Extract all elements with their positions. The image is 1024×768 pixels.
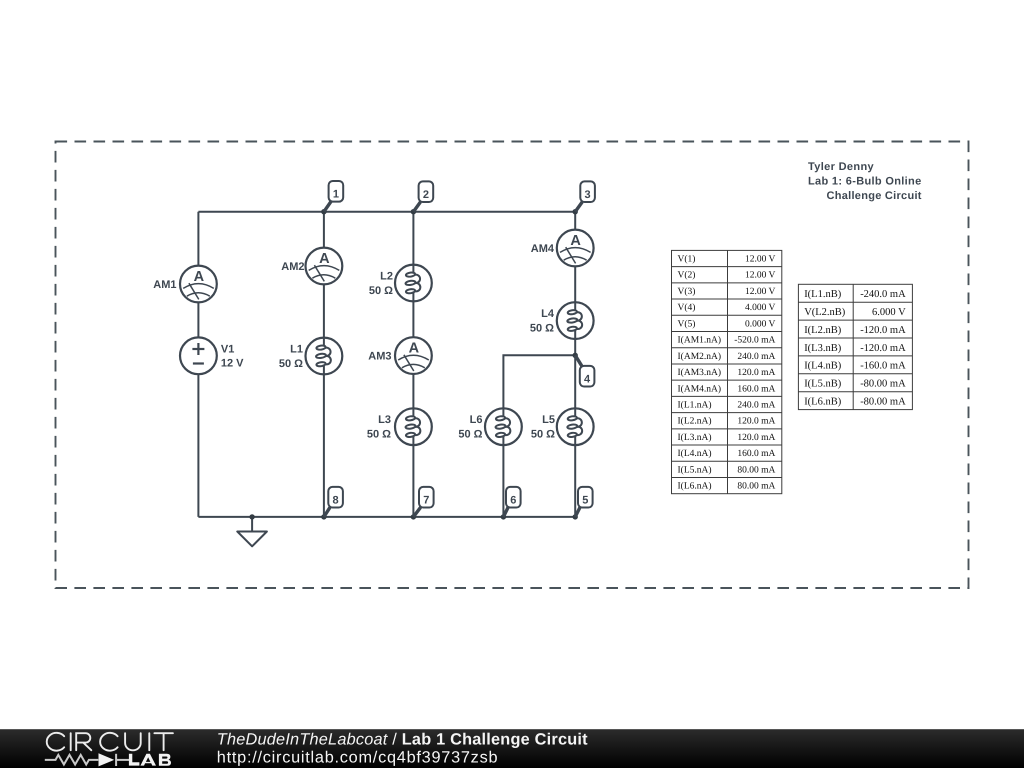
svg-text:I(AM4.nA): I(AM4.nA) [678, 384, 722, 394]
node 5 flag [575, 487, 592, 517]
svg-text:I(L5.nB): I(L5.nB) [804, 379, 842, 390]
junction node 7 dot [411, 514, 416, 519]
ground [237, 517, 267, 546]
lamp L5 50 Ohm [557, 408, 594, 445]
svg-text:Tyler Denny: Tyler Denny [808, 161, 875, 173]
ammeter AM4 [557, 230, 594, 267]
svg-text:160.0 mA: 160.0 mA [737, 384, 775, 394]
wire left branch V1/AM1 [197, 212, 199, 517]
svg-text:50 Ω: 50 Ω [458, 429, 482, 441]
svg-text:I(AM3.nA): I(AM3.nA) [678, 368, 722, 378]
svg-text:80.00 mA: 80.00 mA [737, 482, 775, 492]
svg-text:I(AM2.nA): I(AM2.nA) [678, 352, 722, 362]
ammeter AM3 [395, 337, 432, 374]
svg-text:7: 7 [423, 494, 429, 506]
junction node 3 dot [573, 209, 578, 214]
voltage source V1 [180, 337, 217, 374]
svg-text:I(L1.nA): I(L1.nA) [678, 400, 712, 410]
svg-text:120.0 mA: 120.0 mA [737, 417, 775, 427]
svg-text:I(L5.nA): I(L5.nA) [678, 465, 712, 475]
svg-text:TheDudeInTheLabcoat / Lab 1 Ch: TheDudeInTheLabcoat / Lab 1 Challenge Ci… [217, 731, 588, 749]
ammeter AM1 [180, 266, 217, 303]
svg-text:-80.00 mA: -80.00 mA [860, 396, 906, 407]
svg-text:I(L6.nA): I(L6.nA) [678, 482, 712, 492]
svg-text:-520.0 mA: -520.0 mA [734, 336, 775, 346]
junction node 6 dot [501, 514, 506, 519]
wire branch AM4/L4/L5 [574, 212, 576, 517]
svg-text:2: 2 [423, 189, 429, 201]
footer bar [0, 729, 1024, 768]
svg-text:6: 6 [510, 494, 516, 506]
svg-text:L5: L5 [542, 414, 555, 426]
svg-text:V(2): V(2) [678, 271, 696, 281]
svg-text:80.00 mA: 80.00 mA [737, 465, 775, 475]
ammeter AM2 [306, 248, 343, 285]
wire top bus node1-node2-node3 [198, 211, 575, 213]
svg-text:Lab 1: 6-Bulb Online: Lab 1: 6-Bulb Online [808, 176, 922, 188]
svg-text:50 Ω: 50 Ω [279, 358, 303, 370]
svg-text:L1: L1 [290, 343, 303, 355]
svg-text:V1: V1 [221, 343, 234, 355]
footer text [217, 731, 588, 767]
svg-text:6.000 V: 6.000 V [872, 307, 906, 318]
lamp L2 50 Ohm [395, 265, 432, 302]
svg-text:50 Ω: 50 Ω [530, 323, 554, 335]
svg-text:240.0 mA: 240.0 mA [737, 352, 775, 362]
node 3 flag [575, 181, 595, 211]
svg-text:I(L6.nB): I(L6.nB) [804, 396, 842, 407]
svg-text:12.00 V: 12.00 V [745, 271, 776, 281]
svg-text:I(L3.nA): I(L3.nA) [678, 433, 712, 443]
lamp L3 50 Ohm [395, 408, 432, 445]
svg-text:5: 5 [582, 494, 588, 506]
svg-text:V(4): V(4) [678, 303, 696, 313]
junction ground dot [249, 514, 254, 519]
svg-text:I(L3.nB): I(L3.nB) [804, 343, 842, 354]
drawing frame (decorative) [56, 142, 969, 589]
logo LAB [129, 754, 171, 766]
svg-text:12.00 V: 12.00 V [745, 255, 776, 265]
svg-text:V(1): V(1) [678, 255, 696, 265]
svg-text:240.0 mA: 240.0 mA [737, 400, 775, 410]
svg-text:I(L4.nB): I(L4.nB) [804, 361, 842, 372]
svg-text:AM4: AM4 [531, 243, 555, 255]
svg-text:-160.0 mA: -160.0 mA [860, 361, 906, 372]
svg-text:50 Ω: 50 Ω [367, 429, 391, 441]
title annotation [808, 161, 922, 202]
node 6 flag [503, 487, 520, 517]
svg-text:50 Ω: 50 Ω [531, 429, 555, 441]
results table A [672, 250, 782, 493]
svg-text:1: 1 [333, 188, 339, 200]
svg-text:I(AM1.nA): I(AM1.nA) [678, 336, 722, 346]
logo diode triangle [99, 753, 115, 766]
junction node 8 dot [321, 514, 326, 519]
logo wordmark CIRCUIT [47, 733, 173, 751]
svg-text:L2: L2 [380, 270, 393, 282]
node 4 flag [575, 355, 594, 386]
svg-text:http://circuitlab.com/cq4bf397: http://circuitlab.com/cq4bf39737zsb [217, 748, 498, 766]
junction node 2 dot [411, 209, 416, 214]
svg-text:L6: L6 [470, 414, 483, 426]
lamp L1 50 Ohm [306, 338, 343, 375]
svg-text:8: 8 [333, 494, 339, 506]
svg-text:I(L2.nB): I(L2.nB) [804, 325, 842, 336]
svg-text:AM3: AM3 [368, 351, 391, 363]
results table B [798, 284, 912, 409]
wire branch AM2/L1 [323, 212, 325, 517]
svg-text:I(L1.nB): I(L1.nB) [804, 289, 842, 300]
svg-text:120.0 mA: 120.0 mA [737, 433, 775, 443]
svg-text:Challenge Circuit: Challenge Circuit [827, 190, 922, 202]
lamp L6 50 Ohm [485, 408, 522, 445]
svg-text:L3: L3 [378, 414, 391, 426]
svg-text:0.000 V: 0.000 V [745, 319, 776, 329]
node 8 flag [324, 487, 343, 517]
svg-text:3: 3 [585, 189, 591, 201]
node 7 flag [413, 487, 433, 517]
svg-text:12.00 V: 12.00 V [745, 287, 776, 297]
node 2 flag [413, 181, 433, 211]
svg-text:L4: L4 [541, 308, 555, 320]
svg-text:4: 4 [584, 373, 591, 385]
svg-text:-80.00 mA: -80.00 mA [860, 379, 906, 390]
junction node 1 dot [321, 209, 326, 214]
svg-text:120.0 mA: 120.0 mA [737, 368, 775, 378]
wire bottom bus [198, 516, 575, 518]
svg-text:V(L2.nB): V(L2.nB) [804, 307, 846, 318]
svg-text:AM1: AM1 [153, 279, 176, 291]
svg-text:-120.0 mA: -120.0 mA [860, 343, 906, 354]
svg-text:I(L2.nA): I(L2.nA) [678, 417, 712, 427]
junction node 5 dot [573, 514, 578, 519]
svg-text:4.000 V: 4.000 V [745, 303, 776, 313]
node 1 flag [324, 181, 343, 212]
svg-text:V(5): V(5) [678, 319, 696, 329]
wire L6 branch to node 4 [503, 355, 575, 517]
svg-text:-240.0 mA: -240.0 mA [860, 289, 906, 300]
svg-text:I(L4.nA): I(L4.nA) [678, 449, 712, 459]
junction node 4 dot [573, 353, 578, 358]
svg-text:AM2: AM2 [281, 261, 304, 273]
wire branch L2/AM3/L3 [412, 212, 414, 517]
svg-text:160.0 mA: 160.0 mA [737, 449, 775, 459]
svg-text:V(3): V(3) [678, 287, 696, 297]
lamp L4 50 Ohm [557, 302, 594, 339]
svg-text:-120.0 mA: -120.0 mA [860, 325, 906, 336]
logo resistor+diode [45, 754, 129, 766]
svg-text:12 V: 12 V [221, 358, 244, 370]
svg-text:50 Ω: 50 Ω [369, 285, 393, 297]
